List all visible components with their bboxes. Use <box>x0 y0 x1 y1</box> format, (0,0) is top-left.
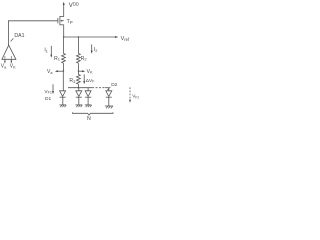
annotation dVF arrow <box>83 74 85 84</box>
ground (D2a) <box>76 105 83 107</box>
node B (R2 tap) <box>78 36 79 37</box>
svg-text:I1: I1 <box>44 48 48 54</box>
label DA1 <box>11 33 25 41</box>
resistor R3 <box>77 71 81 88</box>
ground (D1) <box>59 105 66 107</box>
node Vk <box>78 70 85 72</box>
svg-text:N: N <box>87 116 91 120</box>
op-amp DA1 <box>2 45 16 63</box>
VDD terminal arrow <box>63 2 65 17</box>
svg-text:Va: Va <box>1 64 7 70</box>
annotation VF2 dashed arrow <box>129 87 131 102</box>
svg-text:TP: TP <box>67 19 73 25</box>
diode array top wire <box>68 87 109 88</box>
resistor R1 <box>62 37 66 71</box>
resistor R2 <box>77 37 81 71</box>
transistor Tp <box>58 16 64 25</box>
svg-text:VK: VK <box>10 64 16 70</box>
diode D2n <box>106 88 112 106</box>
svg-text:Va: Va <box>47 69 53 75</box>
underbrace N <box>73 112 114 115</box>
ground (D2b) <box>85 105 92 107</box>
diode D1 <box>60 71 66 105</box>
annotation VF1 arrow <box>52 84 54 94</box>
node A (drain junction) <box>63 36 64 37</box>
svg-text:ΔVF: ΔVF <box>86 78 95 84</box>
current arrow I1 <box>50 46 52 58</box>
svg-text:VDD: VDD <box>69 2 79 9</box>
svg-text:D2: D2 <box>111 82 117 88</box>
svg-text:R1: R1 <box>54 56 61 62</box>
svg-text:D1: D1 <box>45 96 51 102</box>
svg-text:VK: VK <box>87 69 93 75</box>
svg-text:DA1: DA1 <box>14 33 24 39</box>
node Va <box>55 70 64 72</box>
svg-text:I2: I2 <box>94 47 98 53</box>
svg-text:Vref: Vref <box>121 36 130 42</box>
wire gate to DA1 <box>8 21 58 45</box>
svg-text:VF2: VF2 <box>132 94 139 100</box>
wire drain down to node <box>63 25 65 37</box>
label D2 with leader <box>107 82 117 90</box>
svg-text:VF1: VF1 <box>44 89 52 95</box>
diode D2b <box>85 88 91 105</box>
ground (D2n) <box>105 106 113 108</box>
current arrow I2 <box>91 44 93 53</box>
svg-text:R2: R2 <box>81 56 88 62</box>
diode D2a <box>76 88 82 105</box>
svg-text:R3: R3 <box>69 78 76 84</box>
Vref output wire <box>64 36 119 38</box>
